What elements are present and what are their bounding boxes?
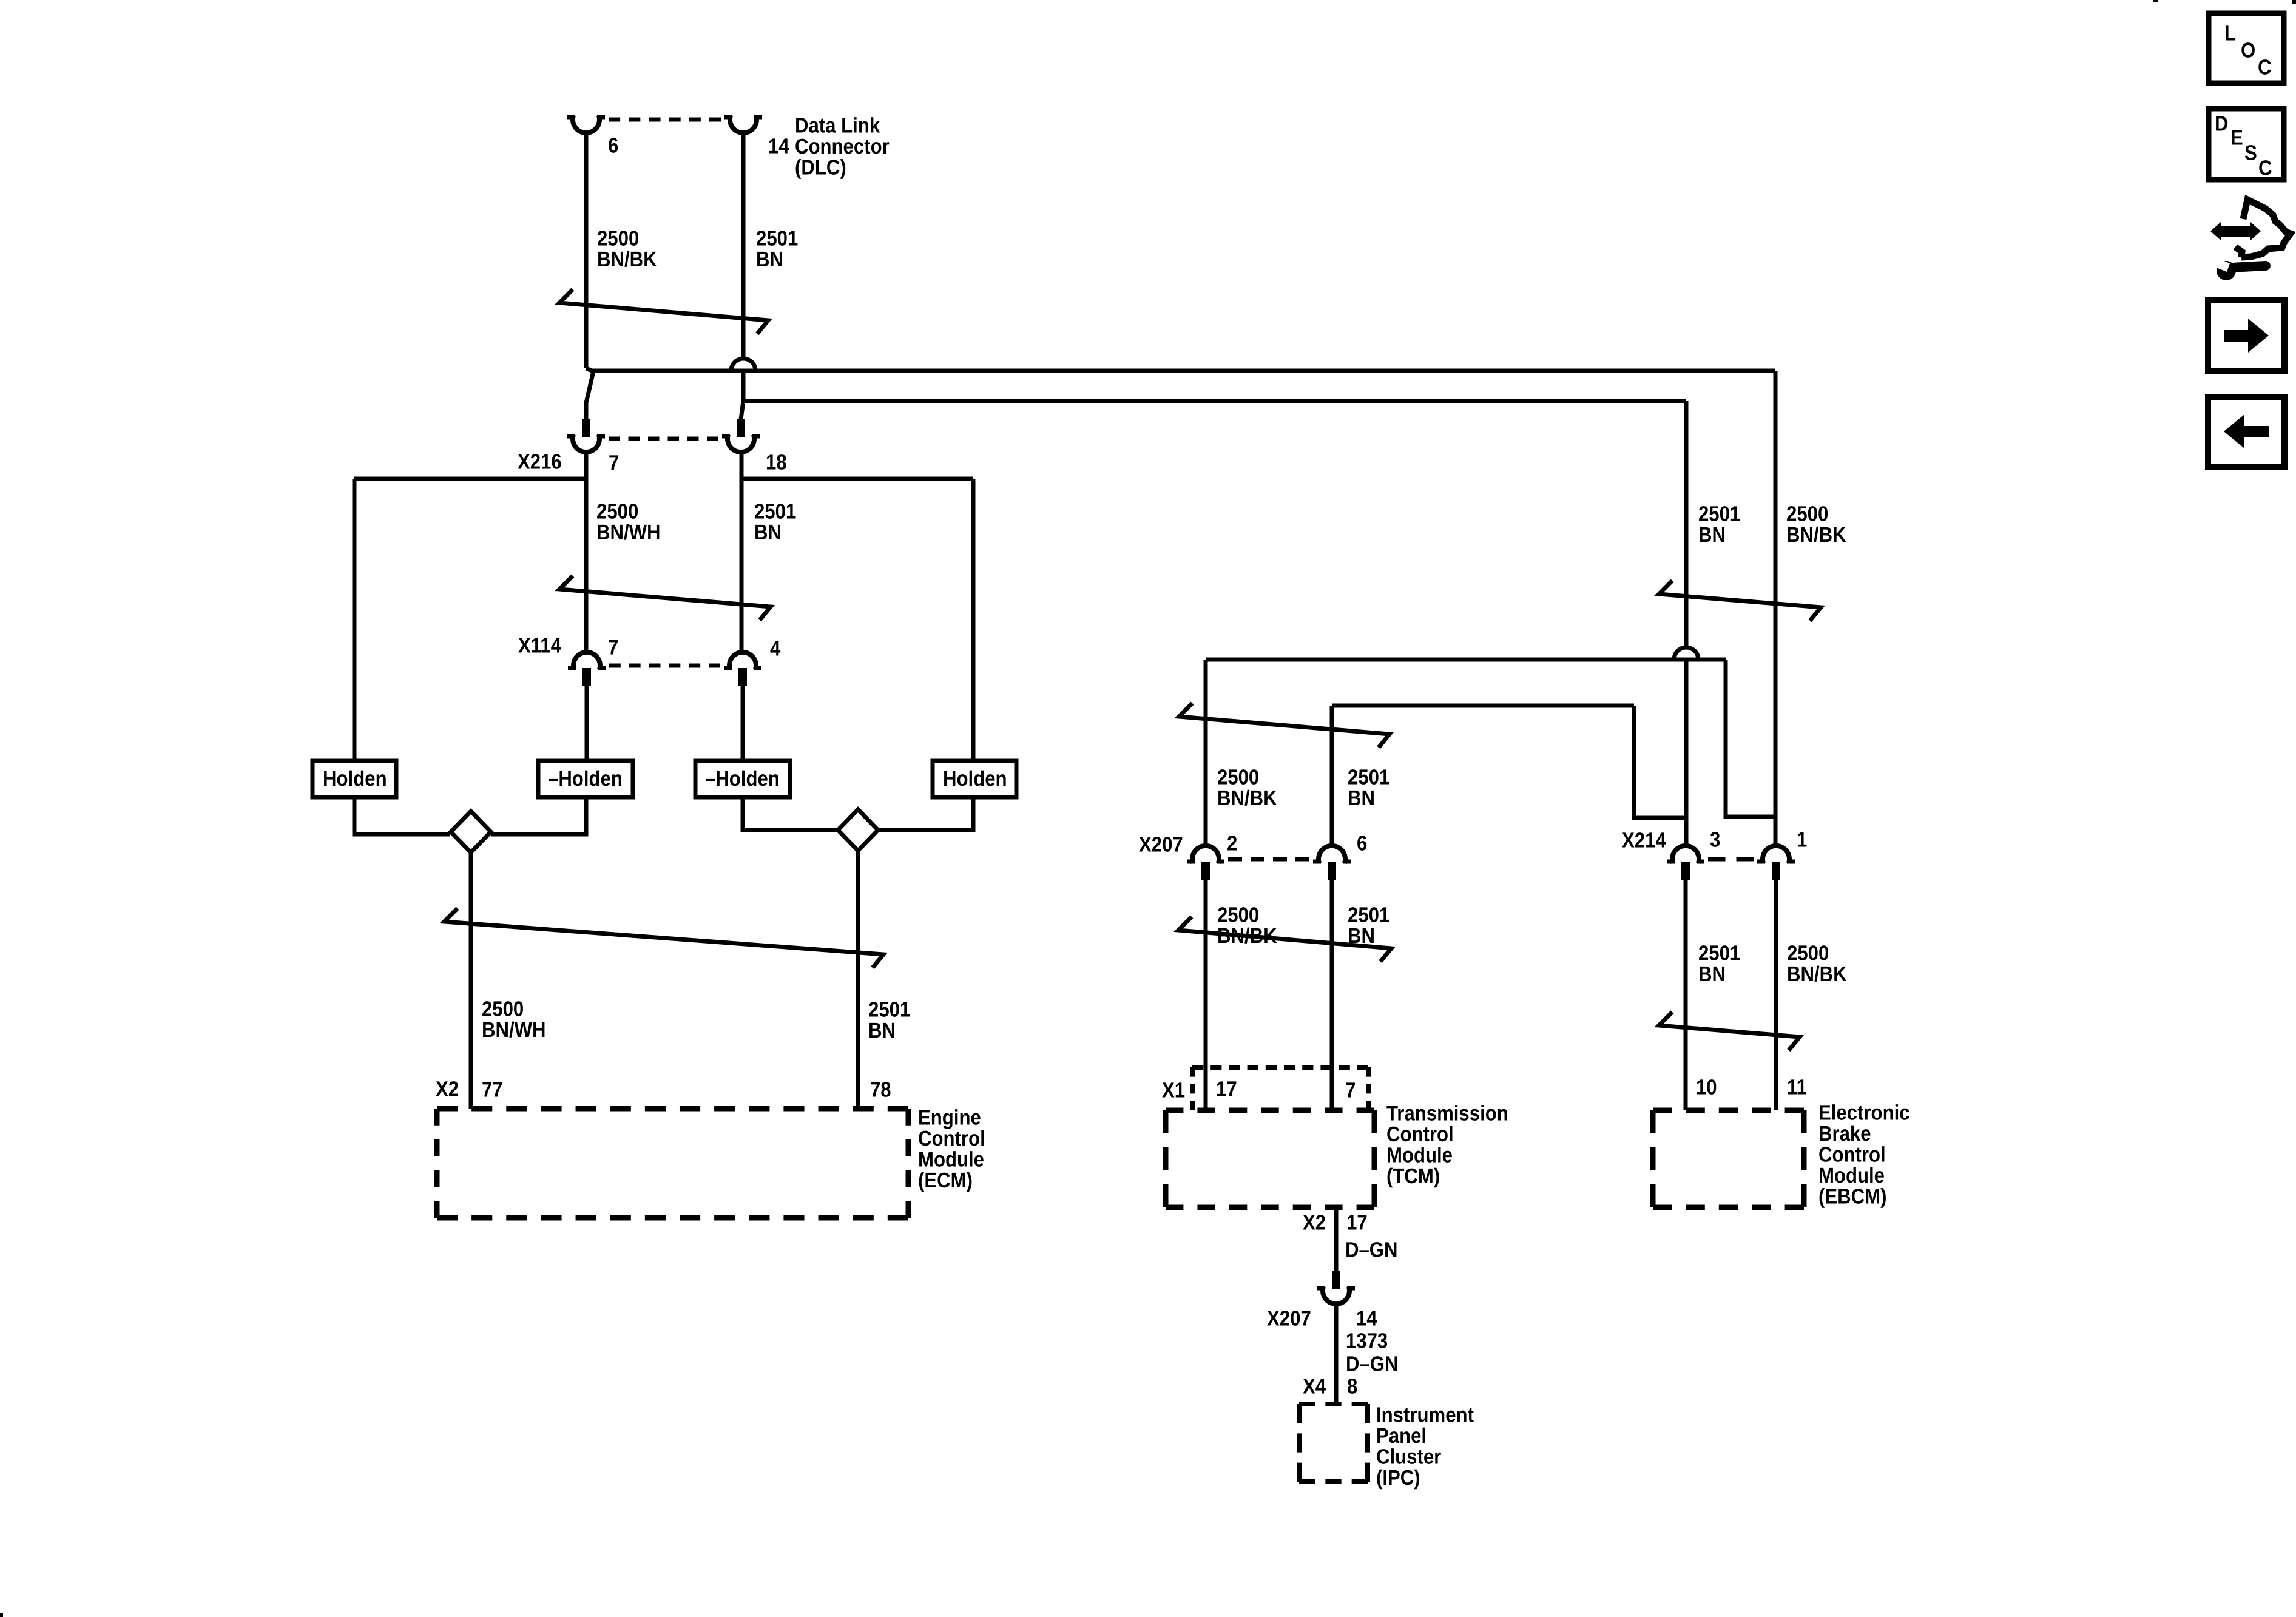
pin stub into X207 pin 14 <box>1332 1271 1340 1289</box>
sidebar box next arrow <box>2208 300 2284 371</box>
svg-text:X216: X216 <box>518 450 562 474</box>
pin label 17 <box>1216 1078 1237 1101</box>
label Instrument Panel Cluster (IPC) <box>1376 1403 1474 1490</box>
svg-text:E: E <box>2230 126 2243 150</box>
DESC letter E <box>2230 126 2243 150</box>
wire label 2500 BN/BK <box>597 227 657 272</box>
svg-text:Electronic: Electronic <box>1818 1101 1910 1125</box>
wire label 2500 BN/BK <box>1217 903 1277 948</box>
connector label X216 <box>518 450 562 474</box>
svg-text:C: C <box>2258 56 2272 79</box>
wire label 2500 BN/WH <box>482 998 546 1042</box>
svg-text:Transmission: Transmission <box>1386 1102 1508 1126</box>
svg-text:17: 17 <box>1216 1078 1237 1101</box>
svg-text:1: 1 <box>1797 828 1807 852</box>
svg-text:D: D <box>2215 112 2229 136</box>
svg-text:BN/BK: BN/BK <box>1786 523 1846 547</box>
svg-text:(ECM): (ECM) <box>918 1169 973 1192</box>
svg-text:Control: Control <box>918 1127 985 1150</box>
sidebar box DESC <box>2209 109 2284 180</box>
wire label 2500 BN/BK <box>1217 766 1277 811</box>
svg-text:2500: 2500 <box>596 500 638 524</box>
page mark top <box>2153 0 2158 2</box>
splice S1 <box>451 811 491 852</box>
wire -Holden to splice 1 <box>491 797 586 834</box>
wire 2501 BN X216 to X114 <box>740 453 744 651</box>
pin label 8 <box>1347 1375 1357 1399</box>
label Holden <box>943 767 1007 791</box>
wire label 2501 BN <box>868 998 910 1043</box>
label -Holden <box>705 767 780 791</box>
box Holden (left) <box>312 761 396 797</box>
svg-text:(EBCM): (EBCM) <box>1818 1185 1886 1209</box>
box -Holden (left middle) <box>538 761 633 797</box>
svg-text:2501: 2501 <box>756 227 798 251</box>
pin label 14 <box>768 135 789 158</box>
svg-text:Module: Module <box>918 1148 984 1172</box>
wire 2500 BN/BK up from X207 pin 2 <box>1204 660 1208 845</box>
pin stub into X216 pin 18 <box>737 419 745 437</box>
svg-text:7: 7 <box>608 636 618 660</box>
svg-text:2501: 2501 <box>868 998 910 1022</box>
next arrow glyph <box>2224 319 2269 353</box>
wire label D-GN <box>1345 1238 1398 1262</box>
svg-text:2: 2 <box>1227 832 1237 856</box>
wire 2501 hop over H1 <box>731 359 755 371</box>
wire label 2501 BN <box>754 500 796 545</box>
pin label 14 <box>1356 1307 1377 1331</box>
wire 2500 jog at H1 branch <box>586 368 593 419</box>
pin label 2 <box>1227 832 1237 856</box>
connector label X214 <box>1622 829 1666 852</box>
pin label 11 <box>1787 1076 1807 1099</box>
DESC letter S <box>2244 141 2257 165</box>
wire label 2500 BN/BK <box>1787 942 1847 987</box>
svg-text:Instrument: Instrument <box>1376 1403 1474 1427</box>
page mark top right <box>2292 0 2296 4</box>
wire 2501 hop over H3 <box>1674 647 1698 660</box>
wire label D-GN <box>1346 1352 1399 1376</box>
wire 2501 BN X207 to TCM pin 7 <box>1330 878 1334 1110</box>
module box TCM <box>1166 1108 1374 1113</box>
module box ECM <box>437 1106 908 1112</box>
svg-text:2500: 2500 <box>1217 903 1259 927</box>
pin label 6 <box>608 134 618 158</box>
svg-text:2500: 2500 <box>482 998 524 1021</box>
wire 2500 BN/BK corner to X214 pin 1 <box>1726 660 1775 817</box>
connector label X2 <box>1303 1211 1326 1235</box>
wire 2501 BN right vertical lower to X214 pin 3 <box>1684 659 1689 845</box>
svg-text:BN: BN <box>756 248 783 271</box>
svg-text:2500: 2500 <box>1787 942 1829 965</box>
connector label X2 <box>436 1078 459 1101</box>
branch wire to right Holden box <box>741 477 973 481</box>
svg-text:Data Link: Data Link <box>795 114 880 138</box>
wire label 2500 BN/WH <box>596 500 661 545</box>
pin label 3 <box>1710 828 1720 852</box>
pin label 4 <box>770 637 781 661</box>
svg-text:2500: 2500 <box>597 227 639 251</box>
wire label 2501 BN <box>756 227 798 272</box>
wire Holden to splice 1 <box>354 797 450 834</box>
svg-text:Connector: Connector <box>795 135 890 158</box>
svg-text:Engine: Engine <box>918 1106 981 1130</box>
svg-text:2500: 2500 <box>1217 766 1259 789</box>
LOC letter C <box>2258 56 2272 79</box>
svg-text:BN: BN <box>1348 924 1375 948</box>
sidebar icon: wrench <box>2215 258 2271 280</box>
wire D-GN from TCM X2 pin 17 <box>1334 1207 1339 1271</box>
X216 connector dashed link <box>609 437 718 441</box>
svg-text:Module: Module <box>1818 1164 1885 1187</box>
svg-text:X214: X214 <box>1622 829 1666 852</box>
connector label X114 <box>518 634 562 658</box>
svg-text:BN/BK: BN/BK <box>1787 962 1847 986</box>
wire 2501 below hop <box>741 370 746 401</box>
X114 connector dashed link <box>609 664 720 668</box>
connector X214 pin 1 cup <box>1763 846 1789 863</box>
wire 2500 BN/BK horizontal run H3 <box>1206 658 1726 662</box>
circuit continuation symbol between X216 and X114 <box>559 576 771 620</box>
connector X214 pin 3 cup <box>1672 846 1699 863</box>
wire 2500 BN/BK X207 to TCM pin 17 <box>1204 878 1208 1110</box>
pin label 7 <box>608 636 618 660</box>
svg-text:78: 78 <box>870 1078 891 1102</box>
wire label 2501 BN <box>1698 502 1740 547</box>
svg-text:10: 10 <box>1696 1076 1717 1099</box>
label Data Link Connector (DLC) <box>795 114 890 180</box>
svg-text:Control: Control <box>1818 1143 1886 1167</box>
DLC connector dashed link <box>609 118 721 122</box>
svg-text:Module: Module <box>1386 1144 1453 1167</box>
pin label 78 <box>870 1078 891 1102</box>
connector X114 pin 7 cup <box>573 652 600 670</box>
wire 2501 jog down to X216 pin 18 <box>741 401 743 419</box>
label Holden <box>323 767 387 791</box>
svg-text:X4: X4 <box>1303 1375 1326 1399</box>
svg-text:2501: 2501 <box>754 500 796 524</box>
wire 2500 BN/WH splice to ECM pin 77 <box>469 852 473 1109</box>
svg-text:X1: X1 <box>1162 1079 1185 1102</box>
left Holden box drop wire <box>353 479 357 761</box>
wire X114 pin 7 to -Holden box <box>585 684 589 761</box>
svg-text:18: 18 <box>766 451 787 474</box>
svg-text:Panel: Panel <box>1376 1424 1427 1448</box>
LOC letter O <box>2241 39 2255 62</box>
pin label 17 <box>1346 1211 1368 1235</box>
svg-text:2501: 2501 <box>1348 903 1389 927</box>
svg-text:L: L <box>2224 22 2236 46</box>
splice S2 <box>838 809 878 851</box>
svg-text:D–GN: D–GN <box>1345 1238 1398 1262</box>
sidebar icon: harness outline <box>2241 200 2291 257</box>
wire label 2500 BN/BK <box>1786 502 1846 547</box>
svg-text:6: 6 <box>1357 832 1367 856</box>
svg-text:Control: Control <box>1386 1122 1454 1146</box>
svg-text:BN: BN <box>868 1019 896 1042</box>
svg-text:17: 17 <box>1346 1211 1368 1235</box>
svg-text:3: 3 <box>1710 828 1720 852</box>
svg-text:BN/WH: BN/WH <box>596 521 661 544</box>
X214 connector dashed link <box>1708 857 1754 862</box>
connector DLC pin 6 cup <box>573 115 599 133</box>
pin label 7 <box>609 451 619 475</box>
wire 2501 BN horizontal run to right (H2) <box>743 399 1686 403</box>
sidebar box LOC <box>2209 13 2284 83</box>
svg-text:Brake: Brake <box>1818 1122 1871 1146</box>
label Engine Control Module (ECM) <box>918 1106 985 1193</box>
sidebar icon: lower-left stub <box>2235 247 2242 257</box>
svg-text:7: 7 <box>1345 1079 1356 1102</box>
label Transmission Control Module (TCM) <box>1386 1102 1508 1189</box>
pin label 18 <box>766 451 787 474</box>
svg-text:(DLC): (DLC) <box>795 156 846 180</box>
svg-text:Holden: Holden <box>323 767 387 791</box>
svg-text:11: 11 <box>1787 1076 1807 1099</box>
svg-text:6: 6 <box>608 134 618 158</box>
wire label 2501 BN <box>1698 942 1740 987</box>
svg-text:X207: X207 <box>1267 1307 1311 1331</box>
svg-text:BN: BN <box>1698 523 1726 547</box>
wire 2500 BN/WH X216 to X114 <box>584 453 589 651</box>
connector X207 pin 2 cup <box>1192 846 1219 863</box>
circuit continuation symbol right top <box>1659 581 1821 621</box>
module box EBCM <box>1653 1108 1804 1113</box>
connector X216 pin 7 cup <box>573 434 599 452</box>
svg-text:8: 8 <box>1347 1375 1357 1399</box>
circuit continuation symbol above ECM <box>444 908 883 968</box>
svg-text:2501: 2501 <box>1698 502 1740 526</box>
connector label X207 <box>1139 833 1183 857</box>
wire 2501 BN from DLC pin 14 <box>741 134 746 360</box>
wire 2501 BN corner to X214 pin 3 <box>1634 706 1686 818</box>
circuit continuation symbol above X207 <box>1179 703 1389 748</box>
svg-text:Cluster: Cluster <box>1376 1445 1442 1469</box>
wire label 1373 <box>1346 1329 1388 1353</box>
pin label 10 <box>1696 1076 1717 1099</box>
svg-text:C: C <box>2258 157 2272 180</box>
svg-text:BN/BK: BN/BK <box>597 248 657 271</box>
svg-text:BN: BN <box>754 521 782 544</box>
wire 2500 BN/BK horizontal run to right (H1) <box>590 369 1775 373</box>
svg-text:4: 4 <box>770 637 781 661</box>
svg-text:–Holden: –Holden <box>705 767 780 791</box>
X207 connector dashed link <box>1228 857 1309 862</box>
svg-text:(TCM): (TCM) <box>1386 1164 1440 1188</box>
connector label X207 <box>1267 1307 1311 1331</box>
svg-text:2501: 2501 <box>1698 942 1740 965</box>
svg-text:BN/BK: BN/BK <box>1217 924 1277 948</box>
right Holden box drop wire <box>971 479 976 761</box>
wire 2500 BN/BK from DLC pin 6 <box>584 134 589 368</box>
connector X114 pin 4 cup <box>729 652 756 670</box>
wire 2500 BN/BK right vertical to X214 pin 1 <box>1774 371 1778 845</box>
svg-text:D–GN: D–GN <box>1346 1352 1399 1376</box>
svg-text:14: 14 <box>1356 1307 1377 1331</box>
module box IPC <box>1299 1402 1368 1406</box>
box Holden (right) <box>933 761 1016 797</box>
DESC letter C <box>2258 157 2272 180</box>
svg-text:S: S <box>2244 141 2257 165</box>
wire label 2501 BN <box>1348 903 1389 948</box>
wire 2501 BN up from X207 pin 6 <box>1330 706 1334 845</box>
wire 2501 BN splice to ECM pin 78 <box>856 851 860 1109</box>
connector X207 pin 6 cup <box>1319 846 1345 863</box>
DESC letter D <box>2215 112 2229 136</box>
pin stub into X216 pin 7 <box>582 419 590 437</box>
wire label 2501 BN <box>1348 766 1389 811</box>
svg-text:O: O <box>2241 39 2255 62</box>
svg-text:BN/WH: BN/WH <box>482 1018 546 1042</box>
wire X114 pin 4 to -Holden box <box>741 684 745 761</box>
connector box X1 on TCM <box>1192 1065 1368 1070</box>
wire Holden to splice 2 <box>878 797 973 830</box>
svg-text:77: 77 <box>482 1078 503 1102</box>
svg-text:X114: X114 <box>518 634 562 658</box>
wire -Holden to splice 2 <box>743 797 839 830</box>
svg-text:2500: 2500 <box>1786 502 1828 526</box>
branch wire to left Holden box <box>354 477 584 481</box>
box -Holden (right middle) <box>695 761 790 797</box>
connector label X4 <box>1303 1375 1326 1399</box>
pin label 6 <box>1357 832 1367 856</box>
connector label X1 <box>1162 1079 1185 1102</box>
svg-text:BN: BN <box>1348 786 1375 810</box>
previous arrow glyph <box>2224 414 2269 448</box>
pin label 7 <box>1345 1079 1356 1102</box>
label -Holden <box>548 767 623 791</box>
wire 1373 D-GN to IPC <box>1334 1305 1339 1404</box>
svg-text:14: 14 <box>768 135 789 158</box>
LOC letter L <box>2224 22 2236 46</box>
sidebar icon: double-headed arrow <box>2210 221 2261 241</box>
pin label 77 <box>482 1078 503 1102</box>
wire 2501 BN X214 to EBCM pin 10 <box>1684 878 1688 1110</box>
wire 2501 BN right vertical upper <box>1684 401 1689 649</box>
svg-text:7: 7 <box>609 451 619 475</box>
svg-text:X2: X2 <box>436 1078 459 1101</box>
sidebar box previous arrow <box>2208 397 2284 467</box>
svg-text:(IPC): (IPC) <box>1376 1466 1420 1490</box>
wire 2501 BN horizontal run <box>1332 704 1634 708</box>
svg-text:2501: 2501 <box>1348 766 1389 789</box>
circuit continuation symbol below DLC <box>559 289 768 334</box>
svg-text:BN/BK: BN/BK <box>1217 786 1277 810</box>
label Electronic Brake Control Module (EBCM) <box>1818 1101 1910 1209</box>
circuit continuation symbol above EBCM <box>1659 1012 1800 1050</box>
svg-text:–Holden: –Holden <box>548 767 623 791</box>
circuit continuation symbol above TCM <box>1178 917 1391 962</box>
connector X207 pin 14 cup <box>1323 1286 1349 1304</box>
svg-text:BN: BN <box>1698 962 1726 986</box>
svg-text:1373: 1373 <box>1346 1329 1388 1353</box>
pin label 1 <box>1797 828 1807 852</box>
svg-text:Holden: Holden <box>943 767 1007 791</box>
connector DLC pin 14 cup <box>730 115 757 133</box>
svg-text:X207: X207 <box>1139 833 1183 857</box>
wire 2500 BN/BK X214 to EBCM pin 11 <box>1774 878 1778 1110</box>
page mark bottom left <box>0 1613 3 1617</box>
svg-text:X2: X2 <box>1303 1211 1326 1235</box>
connector X216 pin 18 cup <box>728 434 754 452</box>
